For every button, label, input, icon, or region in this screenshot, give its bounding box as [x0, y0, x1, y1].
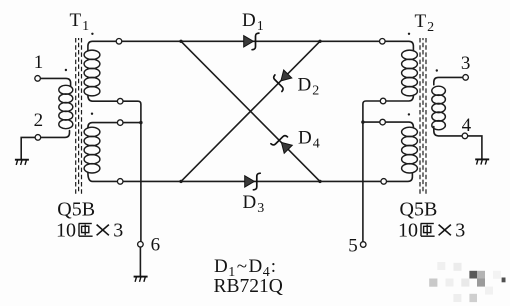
svg-text:1: 1 — [34, 52, 44, 73]
terminal 3 — [463, 75, 469, 81]
ground at terminal 6 — [134, 277, 148, 282]
junction node BL — [179, 180, 182, 183]
diode D4 — [271, 132, 292, 153]
wire terminal 2 to T1 primary bottom — [41, 131, 70, 138]
transformer T1 core — [76, 38, 82, 194]
terminal 2 — [35, 135, 41, 141]
svg-text:6: 6 — [151, 235, 161, 256]
wire T2 center-tap upper lead down to terminal 5 — [363, 95, 414, 242]
wire terminal 6 to ground — [139, 247, 141, 276]
transformer T2 core — [420, 38, 426, 194]
svg-text:5: 5 — [348, 236, 358, 257]
junction node BR — [318, 180, 321, 183]
diode D3 — [245, 173, 261, 190]
value label 10 turns x3 right — [398, 220, 465, 242]
ground at terminal 4 — [475, 159, 489, 164]
svg-text:4: 4 — [462, 115, 472, 136]
inductor T1 secondary upper winding — [84, 50, 100, 96]
wire T1 center-tap lower lead — [88, 123, 141, 128]
wire T1 center-tap upper lead down to terminal 6 — [88, 95, 141, 241]
svg-text:Q5B: Q5B — [400, 198, 438, 220]
wire terminal 3 to T2 secondary top — [434, 77, 463, 84]
terminal circle T1 tap lower — [117, 120, 123, 126]
svg-text:10: 10 — [398, 220, 418, 242]
terminal 1 — [35, 76, 41, 82]
terminal circle T2 tap lower — [380, 119, 386, 125]
polarity dot T2 secondary — [436, 69, 438, 71]
inductor T1 primary winding — [59, 85, 73, 128]
terminal 4 — [462, 133, 468, 139]
terminal circle on bottom bus at T1 — [117, 179, 123, 185]
wire terminal 2 to ground — [21, 137, 35, 159]
polarity dot T1 secondary lower — [91, 113, 93, 115]
wire terminal 1 to T1 primary top — [40, 78, 70, 86]
terminal circle T2 tap upper — [380, 98, 386, 104]
svg-text:3: 3 — [461, 53, 471, 74]
inductor T2 secondary winding — [432, 86, 446, 130]
terminal circle T1 tap upper — [117, 98, 123, 104]
watermark mosaic bottom right — [429, 262, 505, 302]
svg-text:Q5B: Q5B — [57, 198, 95, 220]
svg-text:3: 3 — [113, 220, 123, 242]
ground at terminal 2 — [15, 160, 29, 165]
terminal 5 — [360, 242, 366, 248]
wire terminal 4 to T2 secondary bottom — [434, 127, 462, 136]
diode D2 — [270, 70, 292, 91]
svg-text:3: 3 — [455, 220, 465, 242]
terminal circle on bottom bus at T2 — [381, 179, 387, 185]
value label 10 turns x3 left — [56, 220, 123, 242]
terminal circle on top bus at T1 — [116, 39, 122, 45]
terminal 6 — [138, 242, 144, 248]
junction node TR — [318, 40, 321, 43]
svg-text:RB721Q: RB721Q — [214, 276, 283, 297]
junction node TL — [179, 40, 182, 43]
polarity dot T1 primary — [65, 69, 67, 71]
inductor T2 primary upper winding — [402, 50, 418, 96]
diode D1 — [244, 33, 259, 50]
wire top bus from T1 upper winding to T2 upper winding — [88, 41, 414, 50]
polarity dot T2 primary lower — [408, 113, 410, 115]
wire diagonal node BL to node TR — [181, 41, 320, 181]
wire terminal 4 to ground — [468, 136, 482, 159]
junction T1 center tap — [139, 121, 142, 124]
inductor T1 secondary lower winding — [84, 127, 100, 173]
wire bottom bus from T1 lower winding to T2 lower winding — [88, 173, 413, 182]
terminal circle on top bus at T2 — [380, 39, 386, 45]
wire T2 center-tap lower lead — [363, 122, 414, 127]
svg-text:2: 2 — [34, 110, 44, 131]
polarity dot T2 primary upper — [408, 33, 410, 35]
polarity dot T1 secondary upper — [91, 33, 93, 35]
wire diagonal node TL to node BR — [181, 41, 320, 181]
svg-text:10: 10 — [56, 220, 76, 242]
junction T2 center tap — [361, 120, 364, 123]
inductor T2 primary lower winding — [402, 127, 418, 173]
